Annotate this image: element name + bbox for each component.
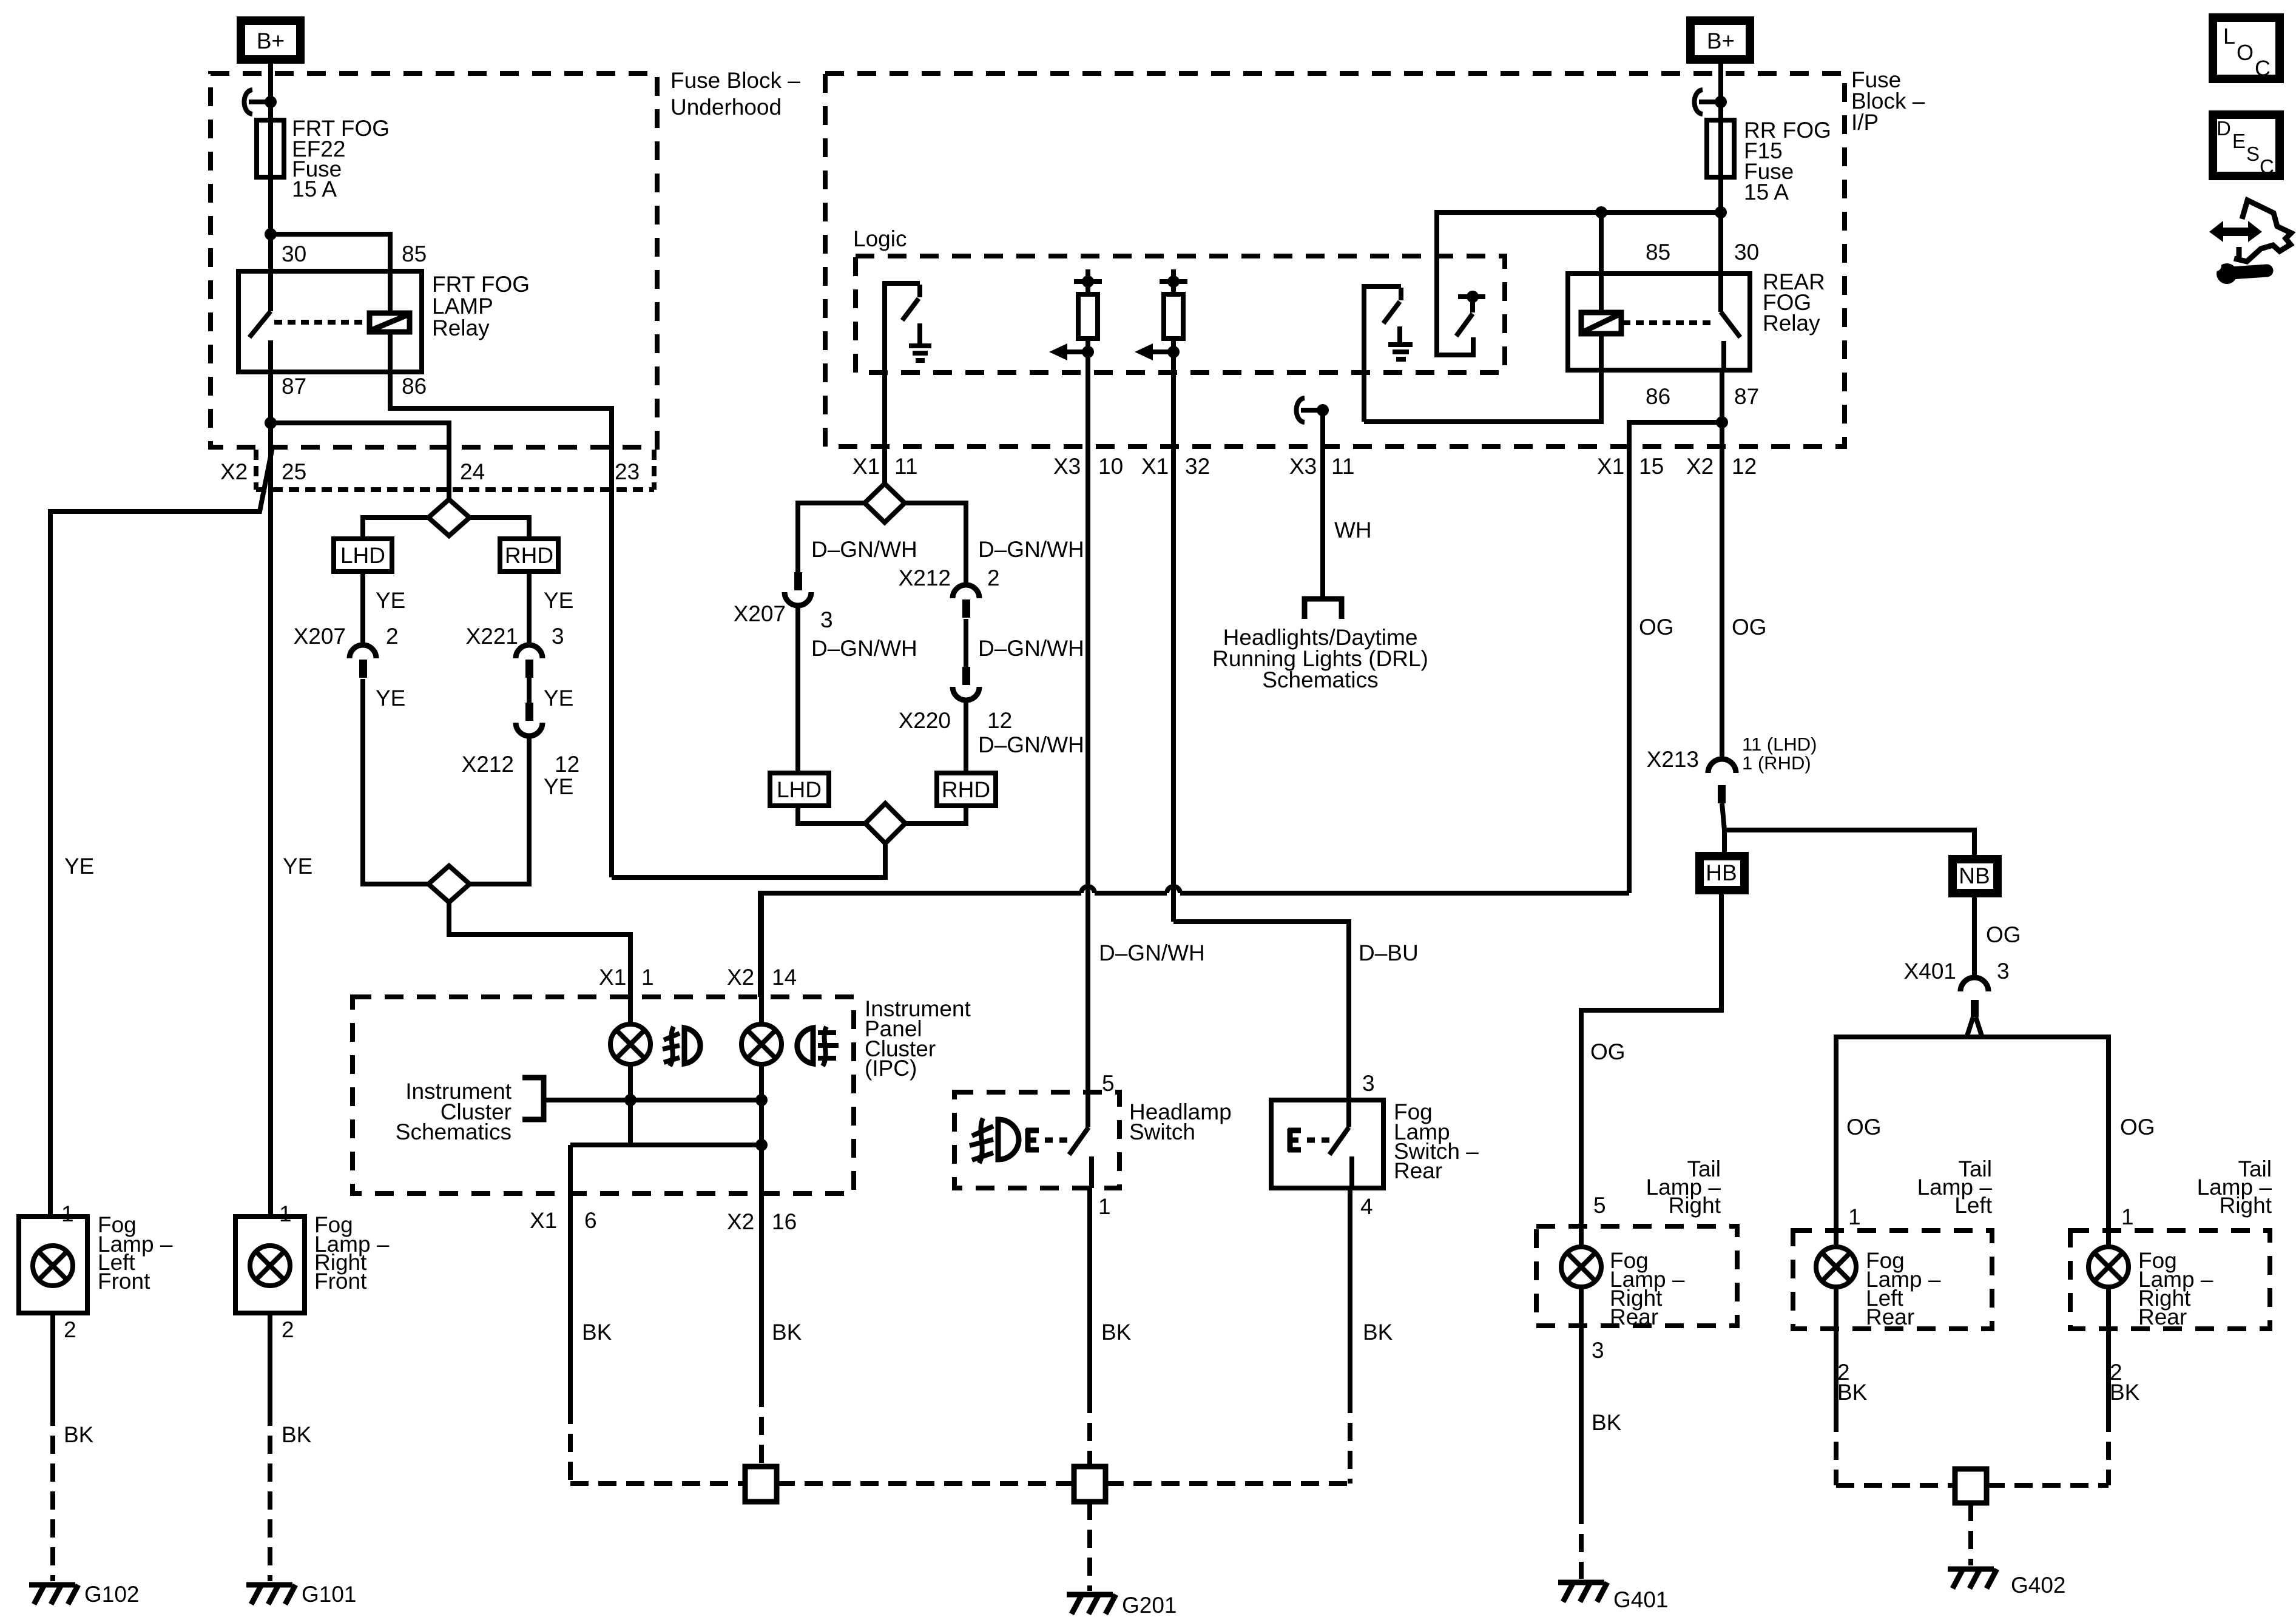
wire X207-3 down to LHD2 bbox=[795, 605, 800, 773]
wire lamp1 down bbox=[628, 1064, 633, 1145]
bulb fog lamp right rear bbox=[1561, 1247, 1601, 1287]
svg-text:Rear: Rear bbox=[1394, 1158, 1442, 1183]
svg-text:S: S bbox=[2246, 143, 2260, 165]
wire HB down to tail lamp right bbox=[1581, 888, 1721, 1226]
svg-text:BK: BK bbox=[1363, 1320, 1393, 1345]
svg-text:YE: YE bbox=[544, 774, 573, 799]
logic dashed box bbox=[856, 256, 1505, 373]
svg-text:3: 3 bbox=[820, 607, 833, 632]
svg-text:16: 16 bbox=[772, 1209, 797, 1234]
wire right lamp to ground solid bbox=[268, 1313, 272, 1408]
wire X1 32 down bbox=[1171, 339, 1176, 922]
svg-text:1: 1 bbox=[1098, 1194, 1111, 1219]
svg-text:YE: YE bbox=[283, 854, 312, 879]
svg-text:Right: Right bbox=[2220, 1193, 2272, 1218]
svg-text:D–GN/WH: D–GN/WH bbox=[978, 732, 1084, 757]
relay 2 dashed actuator link bbox=[1622, 320, 1716, 325]
logic switch 2 with ground (X3 11 control) bbox=[1364, 286, 1401, 422]
svg-text:OG: OG bbox=[1590, 1039, 1626, 1064]
wire LHD2 down to bottom diamond bbox=[798, 806, 865, 823]
svg-text:WH: WH bbox=[1334, 518, 1372, 542]
svg-text:15 A: 15 A bbox=[292, 177, 337, 201]
svg-text:B+: B+ bbox=[257, 29, 285, 53]
fuse block clip hook 2 bbox=[1695, 90, 1703, 114]
wire X207 down to bottom diamond bbox=[363, 679, 428, 884]
tail lamp right dashed box 2 (fog lamp right rear) bbox=[2070, 1230, 2270, 1329]
wire RHD2 down to bottom diamond bbox=[905, 806, 966, 823]
B+ terminal box 2 bbox=[1690, 21, 1750, 59]
wire lamp in box2 bbox=[1834, 1226, 1838, 1247]
svg-text:X207: X207 bbox=[294, 624, 346, 649]
svg-text:(IPC): (IPC) bbox=[865, 1056, 917, 1081]
svg-text:X1: X1 bbox=[530, 1208, 557, 1233]
ground G102 bbox=[29, 1582, 75, 1588]
svg-text:Fuse Block –: Fuse Block – bbox=[670, 68, 800, 93]
wire box1 dashed to G401 bbox=[1579, 1506, 1584, 1579]
svg-text:12: 12 bbox=[987, 708, 1012, 733]
svg-text:X1: X1 bbox=[1597, 454, 1624, 479]
svg-text:3: 3 bbox=[1362, 1071, 1375, 1096]
svg-text:Relay: Relay bbox=[432, 316, 490, 340]
headlamp switch dashed box bbox=[954, 1092, 1119, 1188]
svg-text:Relay: Relay bbox=[1763, 311, 1820, 336]
wire split bus to left and right rear lamps bbox=[1836, 1037, 2109, 1230]
svg-text:G201: G201 bbox=[1122, 1593, 1177, 1617]
wire X212 down to bottom diamond bbox=[470, 735, 529, 884]
wire relay2 86 to logic switch 2 bbox=[1364, 370, 1601, 422]
svg-text:D–GN/WH: D–GN/WH bbox=[978, 636, 1084, 661]
ground G201 bbox=[1067, 1592, 1113, 1598]
svg-text:LAMP: LAMP bbox=[432, 294, 493, 319]
svg-text:25: 25 bbox=[282, 459, 306, 484]
connector X207 pin 2 bbox=[349, 645, 376, 658]
svg-text:X2: X2 bbox=[1686, 454, 1714, 479]
svg-text:87: 87 bbox=[1734, 384, 1759, 409]
resistor X1 32 body bbox=[1171, 282, 1176, 294]
wire right lamp dashed to G101 bbox=[268, 1408, 272, 1581]
wire branch X1 15 bbox=[1629, 422, 1722, 893]
bulb fog lamp left rear bbox=[1816, 1247, 1856, 1287]
svg-text:G402: G402 bbox=[2011, 1573, 2066, 1598]
svg-text:RHD: RHD bbox=[505, 543, 553, 568]
ground G101 bbox=[246, 1582, 292, 1588]
headlamp switch fog icon bbox=[998, 1119, 1019, 1160]
svg-text:Right: Right bbox=[1669, 1193, 1721, 1218]
headlamp switch E contact bbox=[1025, 1129, 1031, 1152]
svg-text:D–GN/WH: D–GN/WH bbox=[811, 636, 917, 661]
svg-text:B+: B+ bbox=[1707, 29, 1735, 53]
svg-text:BK: BK bbox=[582, 1320, 612, 1345]
LHD box bbox=[334, 539, 392, 572]
rear fog indicator icon bbox=[797, 1028, 813, 1064]
wire box2 down then dashed bbox=[1834, 1329, 1838, 1414]
svg-text:10: 10 bbox=[1098, 454, 1123, 479]
wire WH down to DRL bracket bbox=[1320, 410, 1325, 598]
wire diamond right to RHD bbox=[470, 518, 529, 539]
ground bus dashed bbox=[570, 1481, 745, 1486]
logic relay-drive switch with node bbox=[1437, 210, 1473, 355]
diamond connector bottom bbox=[428, 866, 470, 902]
HB box bbox=[1700, 856, 1744, 890]
junction nodes on indicator bus 1 bbox=[624, 1094, 636, 1106]
off-page bracket to DRL schematics bbox=[1305, 599, 1342, 619]
wire B+2 down bbox=[1718, 59, 1723, 120]
svg-text:BK: BK bbox=[2110, 1380, 2140, 1405]
svg-text:Rear: Rear bbox=[2138, 1305, 2187, 1329]
bracket instrument cluster schematics bbox=[522, 1078, 544, 1119]
resistor X1 32 arrow bbox=[1152, 349, 1173, 354]
svg-text:YE: YE bbox=[376, 686, 405, 711]
junction node at B+ wire bbox=[265, 96, 277, 108]
svg-text:1: 1 bbox=[2121, 1204, 2134, 1229]
wire lamp in box3 bbox=[2106, 1230, 2111, 1247]
svg-text:11: 11 bbox=[1331, 454, 1354, 479]
svg-text:86: 86 bbox=[1646, 384, 1670, 409]
splice box B bbox=[1074, 1467, 1106, 1502]
NB box bbox=[1953, 859, 1997, 893]
svg-text:23: 23 bbox=[615, 459, 640, 484]
service icon wrench bbox=[2217, 263, 2237, 284]
wire left lamp dashed to G102 bbox=[50, 1408, 55, 1581]
fuse block clip hook 1 bbox=[245, 90, 253, 114]
svg-text:3: 3 bbox=[1997, 959, 2010, 984]
wire bottom diamond to IPC X1 1 bbox=[449, 902, 630, 1024]
tail lamp right dashed box (fog lamp right rear) bbox=[1536, 1226, 1737, 1326]
svg-text:RHD: RHD bbox=[942, 777, 990, 802]
svg-text:15 A: 15 A bbox=[1744, 180, 1789, 204]
svg-text:X2: X2 bbox=[727, 965, 754, 990]
svg-text:2: 2 bbox=[282, 1317, 294, 1342]
svg-text:BK: BK bbox=[1101, 1320, 1132, 1345]
Y split below X401 bbox=[1967, 1017, 1973, 1036]
svg-text:D–GN/WH: D–GN/WH bbox=[811, 537, 917, 562]
connector X212 pin 2 bbox=[953, 585, 979, 598]
wire fuse to relay 30 bbox=[268, 177, 273, 271]
wire coil 85 to relay top bbox=[388, 271, 393, 313]
relay 1 coil bbox=[370, 313, 410, 332]
svg-text:1: 1 bbox=[641, 965, 654, 990]
svg-text:85: 85 bbox=[1646, 240, 1670, 265]
wire relay2 87 down bbox=[1720, 370, 1724, 760]
indicator lamp rear fog (X2 14) bbox=[759, 893, 764, 1024]
ground symbol logic switch 2 bbox=[1397, 326, 1402, 343]
svg-text:X212: X212 bbox=[462, 752, 514, 777]
svg-text:X401: X401 bbox=[1904, 959, 1956, 984]
splice box A bbox=[745, 1467, 777, 1502]
B+ terminal box 1 bbox=[241, 21, 300, 59]
svg-text:BK: BK bbox=[64, 1422, 94, 1447]
LHD box 2 bbox=[770, 773, 829, 806]
wire X221 to X212 bbox=[527, 678, 532, 704]
wire fog switch pin4 dashed to bus bbox=[1348, 1395, 1352, 1484]
resistor X3 10 top bar bbox=[1074, 279, 1102, 284]
svg-text:D: D bbox=[2217, 117, 2231, 140]
LOC reference box bbox=[2213, 18, 2280, 79]
wire diamond right branch bbox=[905, 503, 966, 584]
fuse RR FOG F15 15A bbox=[1707, 120, 1734, 177]
wire splice B dashed down to G201 bbox=[1087, 1502, 1092, 1591]
service icon double arrow bbox=[2221, 228, 2250, 236]
svg-text:YE: YE bbox=[64, 854, 94, 879]
connector X221 pin 3 bbox=[516, 645, 542, 658]
front fog indicator icon bbox=[684, 1028, 700, 1064]
svg-text:15: 15 bbox=[1639, 454, 1664, 479]
svg-text:X213: X213 bbox=[1647, 747, 1699, 772]
indicator lamp front fog (X1 1) bbox=[610, 1024, 650, 1064]
svg-text:12: 12 bbox=[555, 752, 579, 777]
wire fog switch pin 4 down bbox=[1348, 1188, 1352, 1395]
svg-text:O: O bbox=[2237, 40, 2254, 65]
svg-text:HB: HB bbox=[1706, 860, 1737, 885]
fuse block I/P dashed box bbox=[825, 73, 1845, 447]
wire diagonal split at X2 25 bbox=[50, 447, 272, 1217]
junction node 87 bbox=[265, 417, 277, 429]
FRT FOG LAMP relay box bbox=[238, 271, 422, 372]
wire left lamp to ground solid bbox=[50, 1313, 55, 1408]
WH column: hook and node inside I/P bbox=[1297, 398, 1305, 422]
svg-text:D–BU: D–BU bbox=[1359, 940, 1419, 965]
wire headlamp pin 1 down bbox=[1087, 1188, 1092, 1395]
connector X207 pin 3 bbox=[794, 572, 802, 590]
svg-text:NB: NB bbox=[1959, 863, 1990, 888]
svg-text:OG: OG bbox=[1732, 615, 1767, 640]
svg-text:32: 32 bbox=[1185, 454, 1210, 479]
wire LHD down to X207 bbox=[360, 572, 365, 644]
svg-text:5: 5 bbox=[1593, 1193, 1606, 1218]
svg-text:YE: YE bbox=[544, 686, 573, 711]
svg-text:BK: BK bbox=[1592, 1410, 1622, 1435]
svg-text:11: 11 bbox=[894, 454, 917, 479]
wire X2 16 solid then dashed to splice A bbox=[759, 1193, 764, 1389]
svg-text:87: 87 bbox=[282, 374, 306, 399]
svg-text:I/P: I/P bbox=[1851, 110, 1879, 135]
bulb fog lamp left front bbox=[33, 1246, 73, 1286]
svg-text:2: 2 bbox=[987, 565, 1000, 590]
diamond connector bottom (D-GN/WH) bbox=[865, 803, 905, 843]
wire X212-2 to X220-12 bbox=[964, 619, 968, 668]
wire branch to relay 85 bbox=[271, 234, 390, 271]
wire 85 down to relay2 bbox=[1599, 212, 1604, 313]
ground G402 bbox=[1948, 1567, 1994, 1572]
svg-text:OG: OG bbox=[1639, 615, 1674, 640]
junction node below fuse2 bbox=[1715, 206, 1727, 218]
svg-text:Logic: Logic bbox=[853, 226, 907, 251]
svg-text:C: C bbox=[2260, 155, 2274, 178]
diamond connector top (X2 24) bbox=[428, 499, 470, 536]
svg-text:X1: X1 bbox=[1141, 454, 1169, 479]
wire box1 down solid bbox=[1579, 1326, 1584, 1506]
svg-text:X3: X3 bbox=[1053, 454, 1081, 479]
ground G401 bbox=[1558, 1580, 1604, 1585]
bulb fog lamp right front bbox=[250, 1246, 290, 1286]
svg-text:Schematics: Schematics bbox=[396, 1119, 512, 1144]
bulb fog lamp right rear 2 bbox=[2088, 1247, 2129, 1287]
connector X213 bbox=[1708, 759, 1736, 773]
fuse block - underhood dashed box bbox=[211, 73, 657, 447]
wire logic switch 1 down to top diamond bbox=[882, 373, 887, 484]
svg-text:OG: OG bbox=[1986, 922, 2021, 947]
svg-text:30: 30 bbox=[282, 241, 306, 266]
X2 connector strip right edge bbox=[652, 450, 657, 490]
svg-text:Underhood: Underhood bbox=[670, 95, 782, 120]
wire X213 to HB/NB junction bbox=[1722, 803, 1724, 853]
relay 1 dashed actuator link bbox=[274, 320, 368, 325]
svg-text:1: 1 bbox=[61, 1201, 74, 1226]
svg-text:X3: X3 bbox=[1289, 454, 1317, 479]
svg-text:2: 2 bbox=[64, 1317, 76, 1342]
junction node 87 relay2 bbox=[1716, 416, 1728, 428]
svg-text:3: 3 bbox=[552, 624, 564, 649]
svg-text:FRT FOG: FRT FOG bbox=[432, 272, 530, 297]
svg-text:14: 14 bbox=[772, 965, 797, 990]
wire splice dashed down to G402 bbox=[1968, 1503, 1973, 1565]
wire X220 down to RHD2 bbox=[964, 700, 968, 773]
wire col 25 down (YE to right front lamp) bbox=[268, 423, 273, 1217]
diamond connector top (X1 11) bbox=[865, 484, 905, 522]
relay 1 switch arm bbox=[268, 271, 273, 311]
service icon panel outline bbox=[2234, 200, 2291, 262]
junction node below fuse bbox=[265, 228, 277, 240]
svg-text:X207: X207 bbox=[734, 601, 786, 626]
svg-text:1 (RHD): 1 (RHD) bbox=[1742, 752, 1811, 774]
svg-text:D–GN/WH: D–GN/WH bbox=[1099, 940, 1205, 965]
svg-text:C: C bbox=[2255, 56, 2271, 81]
connector X220 pin 12 bbox=[962, 667, 970, 685]
svg-text:LHD: LHD bbox=[340, 543, 385, 568]
svg-text:30: 30 bbox=[1734, 240, 1759, 265]
wire bottom diamond down to col 23 link bbox=[612, 843, 885, 877]
resistor X3 10 arrow bbox=[1066, 349, 1088, 354]
wire RHD down to X221 bbox=[527, 572, 532, 644]
logic switch 1 (X1 11) bbox=[885, 283, 920, 373]
svg-text:1: 1 bbox=[279, 1201, 292, 1226]
wire X3 10 down through fuse block bbox=[1086, 339, 1090, 1127]
connector X401 bbox=[1960, 977, 1988, 991]
wire 87 junction right to col 24 bbox=[271, 423, 449, 499]
fog switch E contact bbox=[1288, 1129, 1293, 1152]
wire X1 32 to D-BU jog bbox=[1173, 922, 1349, 1127]
wire lamp in box1 bbox=[1579, 1226, 1584, 1247]
svg-text:BK: BK bbox=[772, 1320, 802, 1345]
svg-text:BK: BK bbox=[1837, 1380, 1868, 1405]
svg-text:L: L bbox=[2223, 24, 2235, 49]
wire 86 down and right to col 23 bbox=[390, 372, 612, 877]
splice box G402 bbox=[1955, 1469, 1987, 1503]
wire headlamp pin1 dashed to splice B bbox=[1087, 1395, 1092, 1467]
svg-text:Front: Front bbox=[98, 1269, 150, 1294]
junction node at B+2 wire bbox=[1715, 96, 1727, 108]
svg-text:12: 12 bbox=[1732, 454, 1757, 479]
svg-text:X212: X212 bbox=[899, 565, 951, 590]
fog switch blade bbox=[1329, 1127, 1349, 1155]
wire relay 87 down bbox=[268, 372, 273, 423]
svg-text:G101: G101 bbox=[302, 1582, 357, 1607]
svg-text:X221: X221 bbox=[466, 624, 518, 649]
svg-text:X2: X2 bbox=[220, 459, 248, 484]
svg-text:Front: Front bbox=[314, 1269, 367, 1294]
svg-text:Rear: Rear bbox=[1866, 1305, 1914, 1329]
svg-text:OG: OG bbox=[1846, 1115, 1882, 1139]
headlamp switch blade bbox=[1069, 1127, 1089, 1155]
svg-text:YE: YE bbox=[544, 588, 573, 613]
connector X212 pin 12 bbox=[525, 703, 533, 721]
wire X1 6 dashed to bus bbox=[568, 1406, 573, 1484]
svg-text:X1: X1 bbox=[853, 454, 880, 479]
wire fuse2 to relay2 30 bbox=[1718, 177, 1723, 274]
fuse FRT FOG EF22 15A bbox=[257, 120, 284, 177]
svg-text:24: 24 bbox=[460, 459, 485, 484]
svg-text:X220: X220 bbox=[899, 708, 951, 733]
RHD box bbox=[500, 539, 558, 572]
wire diamond left to LHD bbox=[363, 518, 428, 539]
svg-text:4: 4 bbox=[1360, 1194, 1373, 1219]
resistor X3 10 body bbox=[1086, 282, 1090, 294]
svg-text:85: 85 bbox=[402, 241, 427, 266]
svg-text:11 (LHD): 11 (LHD) bbox=[1742, 734, 1817, 755]
fog lamp right front box bbox=[235, 1217, 305, 1313]
svg-text:E: E bbox=[2232, 130, 2246, 152]
svg-text:OG: OG bbox=[2120, 1115, 2155, 1139]
X2 connector strip left edge bbox=[254, 450, 258, 490]
hop-over crossing wire X2-14 to X1-15 bbox=[760, 893, 1081, 997]
DESC reference box bbox=[2213, 115, 2280, 176]
svg-text:1: 1 bbox=[1848, 1204, 1861, 1229]
wire indicator bus 2 bbox=[570, 1143, 761, 1147]
X2 connector strip bottom edge bbox=[256, 487, 654, 492]
relay 2 coil bbox=[1581, 312, 1621, 334]
svg-text:G102: G102 bbox=[84, 1582, 140, 1607]
svg-text:6: 6 bbox=[584, 1208, 597, 1233]
svg-text:X2: X2 bbox=[727, 1209, 754, 1234]
dashed bus to G402 splice bbox=[1836, 1483, 1955, 1488]
wire diamond left branch bbox=[798, 503, 865, 573]
svg-text:LHD: LHD bbox=[777, 777, 822, 802]
wire X1 6 down bbox=[568, 1145, 573, 1406]
RHD box 2 bbox=[937, 773, 996, 806]
resistor X1 32 top bar bbox=[1160, 279, 1187, 284]
fog lamp left front box bbox=[19, 1217, 87, 1313]
svg-text:86: 86 bbox=[402, 374, 427, 399]
wire branch to NB bbox=[1724, 830, 1974, 856]
wire branch to logic drive and 85 bbox=[1437, 210, 1721, 215]
svg-text:YE: YE bbox=[376, 588, 405, 613]
ground symbol logic switch 1 bbox=[917, 323, 922, 345]
wire lamp2 down bbox=[759, 1064, 764, 1193]
svg-text:BK: BK bbox=[282, 1422, 312, 1447]
svg-text:Left: Left bbox=[1954, 1193, 1992, 1218]
relay 2 switch arm bbox=[1718, 274, 1723, 312]
svg-text:X1: X1 bbox=[599, 965, 626, 990]
svg-text:Schematics: Schematics bbox=[1262, 667, 1378, 692]
svg-text:G401: G401 bbox=[1613, 1587, 1669, 1612]
wire box3 down then dashed bbox=[2106, 1329, 2111, 1414]
wire indicator bus to cluster bracket bbox=[544, 1098, 761, 1102]
svg-text:2: 2 bbox=[386, 624, 399, 649]
tail lamp left dashed box (fog lamp left rear) bbox=[1793, 1230, 1992, 1329]
fog lamp switch rear box bbox=[1271, 1100, 1383, 1188]
wire NB down to X401 bbox=[1972, 891, 1977, 978]
svg-text:Rear: Rear bbox=[1610, 1305, 1658, 1329]
svg-text:5: 5 bbox=[1102, 1071, 1115, 1096]
svg-text:D–GN/WH: D–GN/WH bbox=[978, 537, 1084, 562]
instrument panel cluster dashed box bbox=[353, 997, 854, 1193]
wire B+ down to fuse bbox=[268, 59, 273, 120]
REAR FOG relay box bbox=[1568, 274, 1750, 370]
svg-text:3: 3 bbox=[1592, 1338, 1604, 1363]
svg-text:Switch: Switch bbox=[1129, 1119, 1195, 1144]
